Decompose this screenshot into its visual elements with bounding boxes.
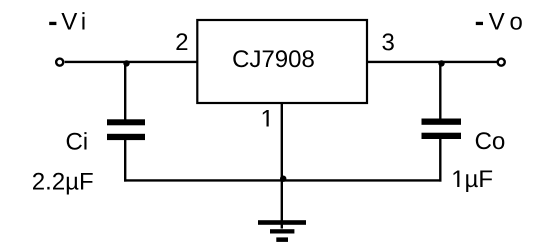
junction dot right — [438, 60, 444, 66]
ground — [258, 220, 306, 225]
wire input to regulator — [65, 61, 197, 63]
pin 2 label — [176, 33, 187, 50]
label Co — [476, 132, 505, 149]
label Vo — [489, 13, 522, 30]
wire regulator to output — [366, 61, 497, 63]
wire left branch upper — [124, 62, 126, 120]
label -Vi minus sign — [49, 22, 56, 25]
output terminal — [498, 59, 505, 66]
capacitor Ci — [107, 119, 145, 125]
regulator U1 CJ7908 — [197, 20, 367, 103]
label -Vo minus sign — [476, 22, 483, 25]
pin 3 label — [382, 33, 393, 50]
label Ci — [67, 132, 87, 150]
wire left branch lower — [124, 139, 126, 182]
capacitor Co — [422, 119, 462, 125]
junction dot left — [123, 60, 129, 66]
wire bottom rail — [124, 179, 442, 181]
wire right branch lower — [439, 138, 441, 182]
pin 1 label — [263, 110, 269, 127]
label 1uF — [454, 171, 493, 193]
wire right branch upper — [439, 62, 441, 120]
input terminal — [56, 59, 63, 66]
label Vi — [61, 12, 84, 29]
junction dot bottom — [280, 176, 286, 182]
wire pin 1 to ground — [281, 103, 283, 229]
label 2.2uF — [33, 173, 93, 195]
